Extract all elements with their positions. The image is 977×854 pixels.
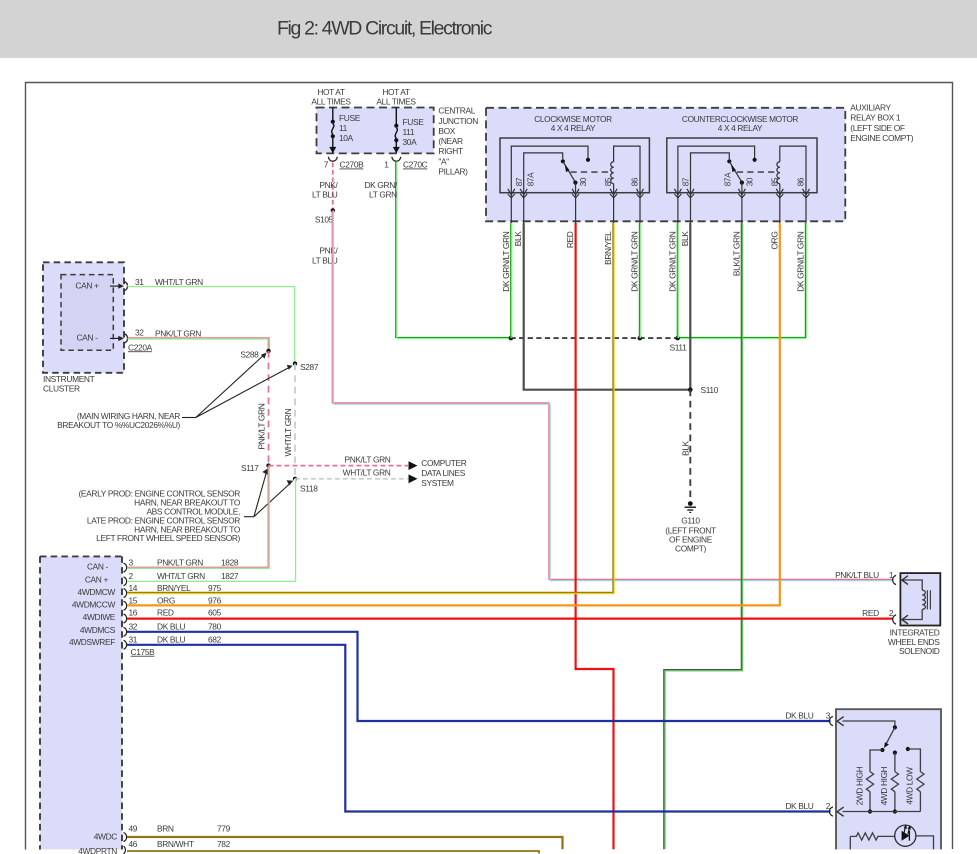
contact 4WD LOW [906, 747, 910, 751]
indicator resistor [849, 836, 851, 849]
svg-text:G110: G110 [681, 516, 700, 526]
svg-text:86: 86 [797, 177, 806, 186]
note main wiring harness [57, 411, 180, 430]
selector blade [885, 727, 895, 745]
contact 4WD HIGH [893, 751, 897, 755]
svg-text:COMPUTER: COMPUTER [421, 458, 466, 468]
svg-text:BOX: BOX [438, 126, 455, 136]
label PNK/LT BLU (below S105) [312, 246, 339, 266]
wire BRN module pin 49 [127, 837, 563, 849]
label COMPUTER DATA LINES SYSTEM [421, 458, 466, 488]
svg-text:RED: RED [565, 231, 575, 248]
svg-text:4WD HIGH: 4WD HIGH [879, 766, 889, 805]
integrated wheel ends solenoid box [893, 573, 941, 625]
svg-text:15ORG976: 15ORG976 [129, 595, 222, 605]
solenoid pin 2 entry [893, 615, 896, 624]
connector C270C pin 1 [384, 157, 427, 170]
K1 mechanical link (dashed) [571, 171, 610, 173]
4WD control module box [40, 556, 122, 849]
svg-text:85: 85 [770, 177, 779, 186]
svg-text:C270C: C270C [403, 160, 428, 170]
splice S287 [293, 361, 319, 372]
svg-text:DK BLU: DK BLU [785, 711, 813, 721]
cluster pin 32 (CAN-) [110, 328, 201, 343]
wire WHT/LT GRN dashed S287-S118 [283, 364, 295, 479]
svg-text:C270B: C270B [340, 160, 365, 170]
wire BRN/YEL relay K1 pin 85 to module pin 14 [127, 223, 614, 594]
splice S111 [670, 336, 688, 353]
wire RED module pin 16 to solenoid pin 2 [127, 617, 893, 619]
svg-text:30: 30 [745, 177, 754, 186]
wire PNK/LT GRN from CAN- [128, 338, 270, 350]
K1 coil pin85-pin86 [613, 184, 615, 193]
label CENTRAL JUNCTION BOX [438, 106, 478, 177]
wire DK GRN/LT GRN from fuse 111 [364, 162, 510, 339]
svg-text:1: 1 [384, 160, 389, 170]
label INSTRUMENT CLUSTER [43, 374, 95, 394]
wire DK BLU module pin 31 to transfer case pin 2 [127, 645, 831, 812]
pin 3 entry [829, 716, 832, 725]
svg-text:HOT AT: HOT AT [382, 87, 410, 97]
splice S105 [315, 208, 335, 224]
header bar [0, 0, 977, 58]
svg-text:COMPT): COMPT) [675, 543, 706, 553]
fuse 11 10A [329, 108, 360, 154]
central junction box [317, 108, 434, 154]
wire DK GRN/LT GRN relay K1 pin 86 [639, 223, 640, 338]
svg-text:4 X 4 RELAY: 4 X 4 RELAY [551, 123, 596, 133]
svg-text:BRN/YEL: BRN/YEL [603, 231, 613, 265]
svg-text:CAN +: CAN + [85, 575, 109, 585]
resistor 2WD HIGH [866, 772, 873, 792]
wire PNK/LT GRN module pin 3 [127, 466, 269, 569]
arrows to S288 S287 [182, 353, 293, 418]
resistor 4WD HIGH [891, 772, 898, 792]
splice S118 [293, 477, 318, 494]
svg-text:S110: S110 [701, 385, 719, 395]
svg-text:4WDMCS: 4WDMCS [80, 625, 116, 635]
wire BRN/WHT module pin 46 [127, 851, 539, 854]
svg-text:SOLENOID: SOLENOID [899, 646, 940, 656]
svg-text:3: 3 [826, 711, 831, 721]
svg-text:S288: S288 [240, 350, 259, 360]
svg-text:FUSE: FUSE [403, 117, 425, 127]
K2 coil pin85-pin86 [779, 184, 781, 193]
svg-text:4WDMCCW: 4WDMCCW [72, 599, 116, 609]
svg-text:BLK: BLK [680, 440, 690, 456]
svg-text:11: 11 [339, 123, 348, 133]
svg-text:WHT/LT GRN: WHT/LT GRN [283, 408, 293, 456]
svg-text:87A: 87A [527, 172, 536, 186]
svg-text:DK GRN/LT GRN: DK GRN/LT GRN [667, 231, 677, 292]
label HOT AT ALL TIMES (fuse 111) [376, 87, 416, 107]
wire DK GRN/LT GRN relay K1 pin 87 [511, 223, 512, 338]
arrows to S117 S118 [244, 468, 293, 516]
svg-text:RIGHT: RIGHT [438, 146, 463, 156]
junction dot at K1 pin 87 feed [509, 336, 514, 341]
wire PNK/LT GRN dashed S288-S117 [257, 351, 269, 466]
module pin arcs [124, 563, 127, 854]
svg-text:4WDPRTN: 4WDPRTN [78, 846, 117, 854]
svg-text:PNK/LT GRN: PNK/LT GRN [345, 454, 391, 464]
svg-text:31DK BLU682: 31DK BLU682 [129, 634, 222, 644]
svg-text:DATA LINES: DATA LINES [421, 468, 465, 478]
svg-text:10A: 10A [339, 133, 354, 143]
svg-text:DK GRN/LT GRN: DK GRN/LT GRN [501, 231, 511, 292]
svg-text:S118: S118 [300, 483, 318, 493]
connector C220A [128, 342, 153, 352]
svg-text:Fig 2: 4WD Circuit, Electronic: Fig 2: 4WD Circuit, Electronic [277, 17, 493, 39]
svg-text:LT GRN: LT GRN [369, 190, 397, 200]
svg-text:2: 2 [889, 608, 894, 618]
svg-text:SYSTEM: SYSTEM [421, 478, 454, 488]
wire PNK/LT BLU S105 to solenoid pin 1 [332, 210, 893, 580]
svg-text:85: 85 [604, 177, 613, 186]
svg-text:49BRN779: 49BRN779 [129, 824, 231, 834]
wire WHT/LT GRN S118 to data lines [295, 468, 418, 484]
wire BLK relay K1 pin 87A to S110 [524, 223, 690, 390]
svg-text:ALL TIMES: ALL TIMES [311, 97, 351, 107]
svg-text:AUXILIARY: AUXILIARY [850, 103, 891, 113]
svg-text:S287: S287 [300, 362, 319, 372]
svg-text:PNK/: PNK/ [319, 180, 338, 190]
svg-text:4WD LOW: 4WD LOW [905, 767, 915, 805]
svg-text:ENGINE COMPT): ENGINE COMPT) [850, 133, 913, 143]
svg-text:BLK: BLK [513, 231, 523, 247]
svg-text:DK GRN/LT GRN: DK GRN/LT GRN [796, 231, 806, 292]
wire PNK/LT GRN S117 to data lines [269, 454, 418, 470]
K1 pin stubs with arrows [511, 193, 640, 223]
svg-text:30: 30 [579, 177, 588, 186]
solenoid pin 1 entry [893, 575, 896, 584]
K1 contact 87 branch [511, 146, 588, 193]
label DK BLU pin 3 [785, 711, 830, 721]
svg-text:87: 87 [515, 177, 524, 186]
wire DK GRN/LT GRN relay K2 pin 87 [677, 223, 678, 338]
svg-text:"A": "A" [438, 156, 449, 166]
module signal labels [69, 562, 117, 854]
svg-text:87A: 87A [724, 172, 733, 186]
svg-text:14BRN/YEL975: 14BRN/YEL975 [129, 583, 222, 593]
ground G110 [665, 501, 716, 553]
wire PNK/LT BLU dashed from fuse 11 [312, 163, 339, 209]
svg-text:2: 2 [826, 801, 831, 811]
label AUXILIARY RELAY BOX 1 [850, 103, 913, 143]
svg-text:RED: RED [862, 608, 879, 618]
relay K2 counterclockwise motor 4x4 relay [667, 114, 817, 223]
svg-text:ORG: ORG [769, 232, 779, 250]
svg-text:JUNCTION: JUNCTION [438, 116, 478, 126]
svg-text:PNK/LT BLU: PNK/LT BLU [835, 570, 879, 580]
svg-text:PILLAR): PILLAR) [438, 166, 468, 176]
svg-text:7: 7 [324, 160, 329, 170]
K1 switch blade to pin 30 [563, 161, 576, 182]
svg-text:DK GRN/: DK GRN/ [364, 180, 397, 190]
note engine control sensor harness [78, 489, 240, 544]
svg-text:3PNK/LT GRN1828: 3PNK/LT GRN1828 [129, 558, 239, 568]
svg-text:LT BLU: LT BLU [312, 190, 338, 200]
svg-text:2WHT/LT GRN1827: 2WHT/LT GRN1827 [129, 571, 239, 581]
wire ORG relay K2 pin 85 to module pin 15 [127, 223, 780, 605]
auxiliary relay box 1 [486, 108, 845, 222]
wire BLK dashed S110 to ground [680, 390, 690, 501]
selector common from pin 3 [843, 721, 895, 725]
svg-text:CAN -: CAN - [76, 332, 98, 342]
svg-text:CENTRAL: CENTRAL [438, 106, 475, 116]
svg-text:46BRN/WHT782: 46BRN/WHT782 [129, 839, 231, 849]
pin 2 entry and bottom rail [829, 807, 832, 816]
instrument cluster inner box [61, 275, 113, 351]
svg-text:LEFT FRONT WHEEL SPEED SENSOR): LEFT FRONT WHEEL SPEED SENSOR) [96, 533, 240, 543]
svg-text:86: 86 [631, 177, 640, 186]
connector C270B pin 7 [324, 157, 364, 170]
wire BLK/LT GRN relay K2 pin 30 [664, 223, 743, 849]
svg-text:S105: S105 [315, 214, 334, 224]
svg-text:(LEFT SIDE OF: (LEFT SIDE OF [850, 123, 905, 133]
label RED pin 2 [862, 608, 894, 618]
svg-text:BLK/LT GRN: BLK/LT GRN [731, 231, 741, 276]
instrument cluster outer box [43, 262, 124, 373]
svg-text:(NEAR: (NEAR [438, 136, 463, 146]
svg-text:C175B: C175B [131, 647, 156, 657]
label DK BLU pin 2 [785, 801, 830, 811]
K2 switch blade to pin 30 [729, 161, 742, 182]
svg-text:S111: S111 [670, 343, 688, 353]
svg-text:BLK: BLK [680, 231, 690, 247]
splice S117 [241, 463, 271, 473]
svg-text:WHT/LT GRN: WHT/LT GRN [343, 468, 391, 478]
junction dot at K1 pin 86 feed [638, 336, 643, 341]
wire WHT/LT GRN module pin 2 [127, 479, 296, 582]
svg-text:4WDMCW: 4WDMCW [78, 587, 116, 597]
resistor 4WD LOW [917, 772, 924, 792]
svg-text:FUSE: FUSE [339, 113, 361, 123]
label INTEGRATED WHEEL ENDS SOLENOID [888, 627, 940, 656]
svg-text:BREAKOUT TO %%UC2026%%U): BREAKOUT TO %%UC2026%%U) [57, 420, 180, 430]
svg-text:111: 111 [403, 127, 415, 137]
transfer case switch box [829, 709, 941, 849]
svg-text:4WDC: 4WDC [94, 831, 118, 841]
K1 common 87A branch [524, 153, 563, 193]
svg-text:PNK/: PNK/ [319, 246, 338, 256]
splice S110 [688, 385, 719, 395]
svg-text:CAN +: CAN + [75, 281, 99, 291]
wire DK BLU module pin 32 to transfer case pin 3 [127, 632, 831, 721]
label PNK/LT BLU pin 1 [835, 570, 894, 580]
svg-text:HOT AT: HOT AT [317, 87, 345, 97]
solenoid coil [902, 580, 922, 590]
svg-text:DK BLU: DK BLU [785, 801, 813, 811]
label HOT AT ALL TIMES (fuse 11) [311, 87, 351, 107]
svg-text:S117: S117 [241, 463, 259, 473]
svg-text:87: 87 [682, 177, 691, 186]
wire RED relay K1 pin 30 [576, 223, 614, 849]
rotated wire labels below relays [501, 231, 806, 292]
contact 2WD HIGH [880, 748, 884, 752]
svg-text:CAN -: CAN - [87, 562, 109, 572]
svg-text:C220A: C220A [128, 342, 153, 352]
svg-text:4 X 4 RELAY: 4 X 4 RELAY [718, 123, 763, 133]
svg-text:PNK/LT GRN: PNK/LT GRN [155, 328, 201, 338]
relay K1 clockwise motor 4x4 relay [500, 114, 649, 223]
svg-text:4WDSWREF: 4WDSWREF [69, 637, 115, 647]
svg-text:30A: 30A [403, 137, 418, 147]
wire DK GRN/LT GRN relay K2 pin 86 [805, 223, 806, 338]
K2 common 87A branch [691, 153, 730, 193]
wire BLK relay K2 pin 87A to S110 [689, 223, 691, 390]
cluster pin 31 (CAN+) [110, 277, 203, 290]
indicator LED [895, 825, 916, 846]
wire WHT/LT GRN from CAN+ [128, 286, 296, 364]
svg-text:32DK BLU780: 32DK BLU780 [129, 621, 222, 631]
svg-text:2WD HIGH: 2WD HIGH [854, 766, 864, 805]
svg-text:16RED605: 16RED605 [129, 608, 222, 618]
svg-text:INSTRUMENT: INSTRUMENT [43, 374, 95, 384]
svg-text:RELAY BOX 1: RELAY BOX 1 [850, 113, 901, 123]
svg-text:CLUSTER: CLUSTER [43, 384, 80, 394]
svg-text:ALL TIMES: ALL TIMES [376, 97, 416, 107]
svg-text:DK GRN/LT GRN: DK GRN/LT GRN [630, 231, 640, 292]
svg-text:1: 1 [889, 570, 894, 580]
module row texts [129, 558, 239, 849]
connector C175B [131, 647, 156, 657]
wire dashed supply link S111 [511, 337, 678, 339]
splice S288 [240, 349, 270, 360]
svg-text:32: 32 [135, 328, 144, 338]
wire DK GRN/LT GRN S111 to relay K2 pin 86 [678, 338, 806, 339]
fuse 111 30A [393, 108, 424, 154]
K2 contact 87 branch [678, 146, 755, 193]
svg-text:PNK/LT GRN: PNK/LT GRN [257, 403, 267, 449]
svg-text:4WDIWE: 4WDIWE [83, 612, 116, 622]
K2 pin stubs with arrows [678, 193, 806, 223]
K2 mechanical link (dashed) [737, 171, 775, 173]
